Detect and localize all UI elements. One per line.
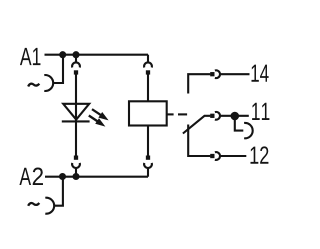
plug-in socket row 11 [215, 112, 249, 120]
plug-in pin row 11 [210, 114, 214, 118]
terminal label A1 [20, 48, 41, 65]
plug-in pin LED to A2 [74, 156, 78, 160]
AC symbol at A1 [28, 84, 39, 87]
wire A2 drop to clamp [54, 177, 63, 206]
clamp terminal A1 [44, 75, 53, 91]
plug-in socket coil top [144, 62, 152, 67]
terminal label 14 [251, 65, 268, 82]
wire 11 to clamp [235, 116, 244, 131]
plug-in socket above A2 node [72, 163, 80, 177]
clamp terminal A2 [45, 198, 54, 214]
plug-in socket coil bottom [144, 163, 152, 177]
terminal label 12 [250, 146, 268, 163]
plug-in socket row 14 [215, 70, 250, 78]
plug-in pin coil top [146, 70, 150, 101]
node junction dot bottom-left [59, 173, 66, 180]
wire A1 drop to clamp [53, 55, 63, 83]
wire top rail A1 [45, 54, 149, 56]
plug-in pin row 14 [210, 72, 214, 76]
LED light arrow 2 [89, 116, 106, 127]
contact NC stub to 12 [188, 125, 210, 157]
LED D1 triangle [63, 104, 89, 120]
plug-in pin row 12 [210, 154, 214, 158]
AC symbol at A2 [28, 203, 39, 206]
node junction dot top-left [59, 51, 66, 58]
contact blade 11 [183, 116, 211, 134]
node junction dot bottom-right [72, 173, 79, 180]
terminal label A2 [19, 168, 31, 185]
terminal label 11 [252, 103, 269, 120]
clamp terminal 11 [244, 123, 253, 138]
plug-in socket row 12 [215, 152, 246, 160]
plug-in pin to LED [74, 70, 78, 155]
plug-in socket below A1 node [72, 55, 80, 68]
LED D1 cathode bar [62, 120, 90, 122]
LED light arrow 1 [92, 109, 109, 120]
wire coil bottom [147, 126, 149, 156]
wire coil branch from top rail [147, 55, 149, 63]
node junction dot 11 [231, 112, 240, 121]
wire bottom rail A2 [45, 176, 148, 178]
node junction dot top-right [72, 51, 79, 58]
dashed mechanical link [167, 113, 187, 115]
contact NO stub to 14 [188, 74, 210, 93]
relay coil K1 [129, 101, 167, 125]
plug-in pin coil bottom [146, 156, 150, 160]
